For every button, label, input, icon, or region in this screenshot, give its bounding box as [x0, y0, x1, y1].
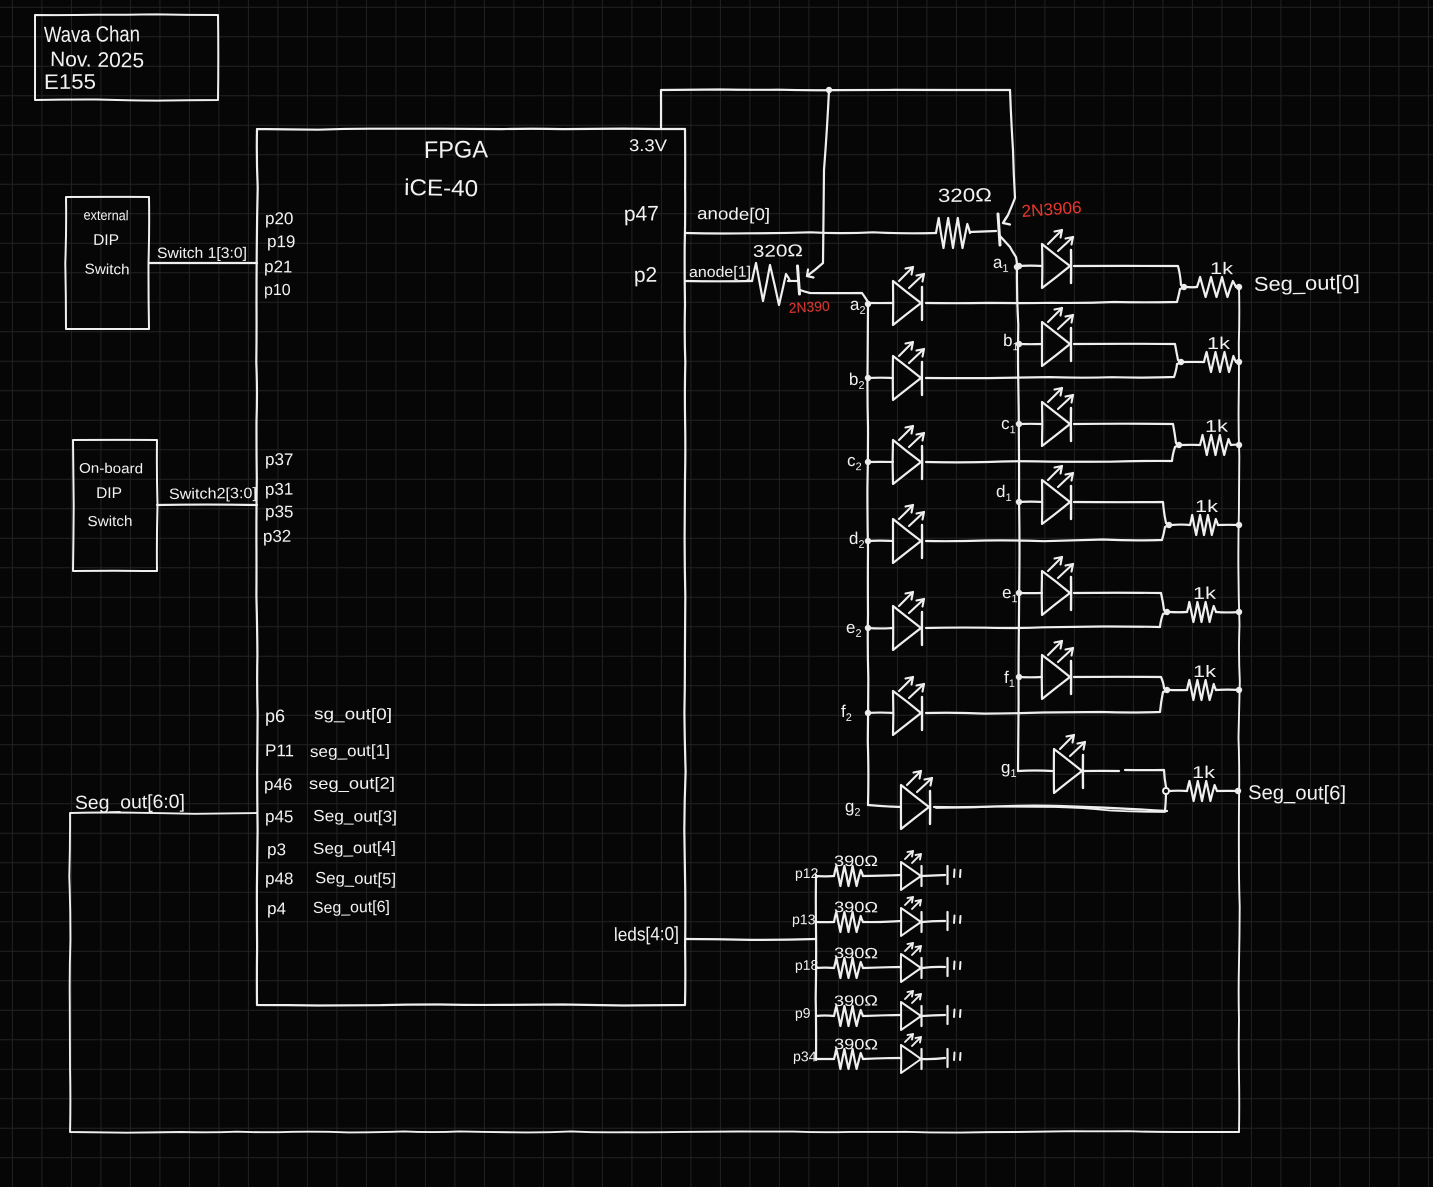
svg-text:anode[0]: anode[0]: [697, 204, 770, 224]
svg-text:Switch 1[3:0]: Switch 1[3:0]: [157, 245, 247, 262]
svg-text:seg_out[1]: seg_out[1]: [310, 743, 390, 761]
svg-text:p6: p6: [265, 706, 285, 726]
svg-text:2N390: 2N390: [788, 298, 830, 317]
svg-text:DIP: DIP: [93, 232, 119, 249]
svg-text:1k: 1k: [1193, 584, 1217, 603]
svg-text:Seg_out[4]: Seg_out[4]: [313, 839, 396, 858]
svg-text:p10: p10: [264, 282, 291, 299]
svg-text:3.3V: 3.3V: [629, 136, 668, 155]
svg-text:Switch2[3:0]: Switch2[3:0]: [169, 485, 257, 503]
svg-text:Seg_out[6]: Seg_out[6]: [1248, 782, 1346, 805]
svg-text:seg_out[2]: seg_out[2]: [309, 776, 395, 793]
svg-text:390Ω: 390Ω: [834, 853, 878, 870]
svg-text:p34: p34: [793, 1048, 817, 1064]
svg-text:p35: p35: [265, 502, 294, 521]
svg-text:p19: p19: [267, 232, 296, 251]
svg-text:Seg_out[6:0]: Seg_out[6:0]: [75, 792, 185, 814]
svg-text:p20: p20: [265, 209, 294, 228]
svg-text:Seg_out[3]: Seg_out[3]: [313, 808, 397, 826]
svg-text:p3: p3: [267, 840, 286, 859]
svg-text:p47: p47: [624, 202, 659, 226]
svg-text:390Ω: 390Ω: [834, 992, 878, 1010]
svg-text:P11: P11: [265, 741, 294, 760]
svg-text:p9: p9: [795, 1005, 811, 1021]
svg-text:320Ω: 320Ω: [938, 185, 992, 207]
svg-text:1k: 1k: [1192, 763, 1216, 782]
svg-text:1k: 1k: [1193, 662, 1217, 681]
svg-text:320Ω: 320Ω: [753, 241, 803, 261]
svg-text:p13: p13: [792, 911, 816, 927]
svg-text:p2: p2: [634, 264, 658, 287]
svg-text:390Ω: 390Ω: [834, 945, 878, 962]
svg-text:390Ω: 390Ω: [834, 899, 878, 916]
svg-text:1k: 1k: [1207, 334, 1231, 353]
svg-text:p18: p18: [795, 957, 819, 973]
svg-text:Seg_out[6]: Seg_out[6]: [313, 899, 390, 917]
svg-text:iCE-40: iCE-40: [404, 174, 478, 201]
svg-text:p37: p37: [265, 450, 293, 469]
svg-text:p12: p12: [795, 865, 819, 881]
svg-text:external: external: [83, 207, 128, 224]
svg-text:FPGA: FPGA: [424, 136, 488, 164]
svg-text:Seg_out[5]: Seg_out[5]: [315, 870, 396, 888]
svg-text:p32: p32: [263, 527, 292, 546]
svg-text:Seg_out[0]: Seg_out[0]: [1254, 272, 1360, 296]
svg-text:Switch: Switch: [87, 514, 132, 530]
svg-text:p46: p46: [264, 775, 292, 794]
svg-text:anode[1]: anode[1]: [689, 264, 751, 281]
svg-text:1k: 1k: [1205, 417, 1229, 436]
svg-text:p31: p31: [265, 480, 294, 499]
svg-text:Nov. 2025: Nov. 2025: [50, 48, 144, 72]
svg-text:p48: p48: [265, 869, 294, 888]
svg-text:390Ω: 390Ω: [834, 1036, 878, 1053]
svg-text:p45: p45: [265, 807, 294, 826]
svg-text:Wava Chan: Wava Chan: [44, 21, 140, 47]
svg-text:E155: E155: [44, 71, 96, 94]
svg-text:1k: 1k: [1195, 497, 1219, 516]
svg-text:Switch: Switch: [84, 262, 129, 279]
svg-text:DIP: DIP: [96, 485, 122, 502]
svg-text:leds[4:0]: leds[4:0]: [614, 924, 679, 946]
svg-text:On-board: On-board: [79, 460, 143, 477]
svg-text:1k: 1k: [1210, 259, 1234, 278]
svg-text:sg_out[0]: sg_out[0]: [314, 706, 392, 724]
svg-text:p21: p21: [264, 257, 293, 277]
svg-text:p4: p4: [267, 899, 286, 918]
